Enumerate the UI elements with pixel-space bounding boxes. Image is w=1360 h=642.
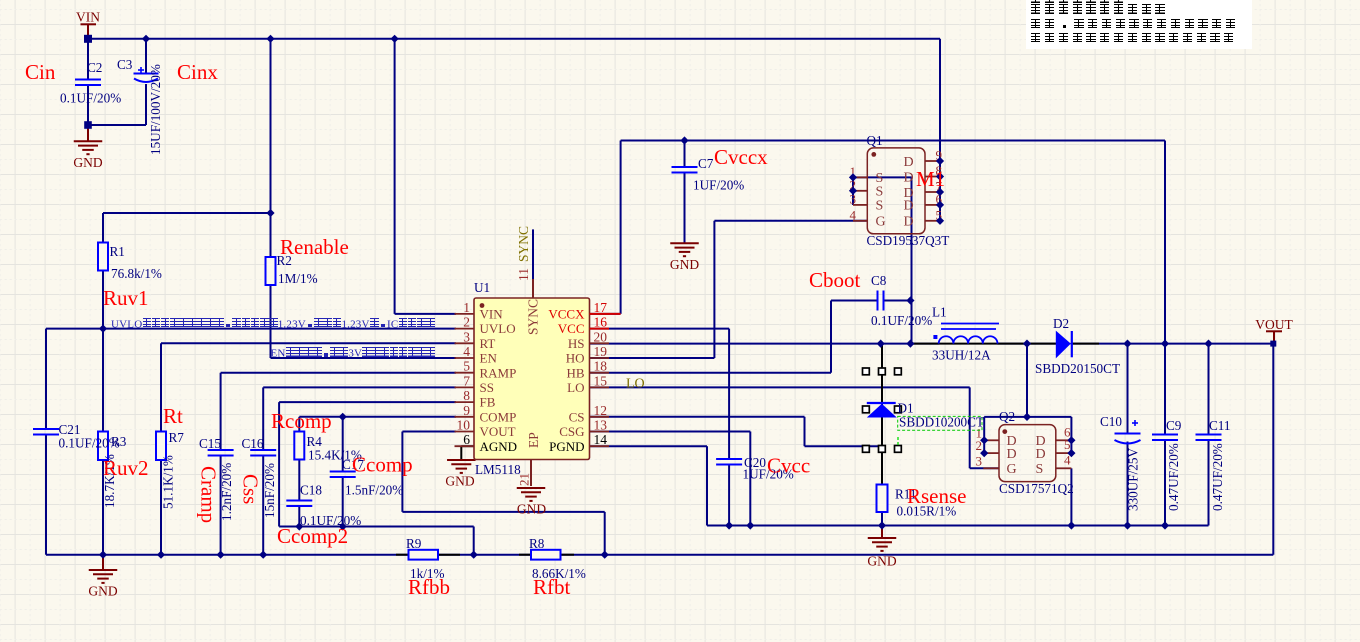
- svg-text:Cvcc: Cvcc: [767, 454, 810, 478]
- svg-text:L1: L1: [932, 305, 947, 320]
- svg-text:EN: EN: [480, 351, 498, 366]
- svg-text:51.1K/1%: 51.1K/1%: [161, 455, 176, 509]
- svg-text:7: 7: [463, 373, 470, 388]
- svg-text:VOUT: VOUT: [1255, 317, 1293, 332]
- svg-text:D: D: [904, 155, 914, 170]
- svg-text:R1: R1: [110, 244, 125, 259]
- svg-text:GND: GND: [867, 554, 896, 569]
- svg-text:C8: C8: [871, 273, 887, 288]
- svg-text:12: 12: [594, 403, 608, 418]
- svg-text:4: 4: [463, 344, 470, 359]
- svg-text:Rcomp: Rcomp: [271, 409, 332, 433]
- svg-text:Ruv1: Ruv1: [103, 286, 149, 310]
- svg-text:D: D: [904, 199, 914, 214]
- svg-text:C7: C7: [698, 156, 714, 171]
- svg-text:Cinx: Cinx: [177, 60, 218, 84]
- svg-text:G: G: [1007, 462, 1017, 477]
- svg-text:FB: FB: [480, 395, 496, 410]
- svg-text:Cboot: Cboot: [809, 268, 861, 292]
- svg-text:33UH/12A: 33UH/12A: [932, 348, 991, 363]
- svg-text:0.47UF/20%: 0.47UF/20%: [1210, 443, 1225, 511]
- svg-text:HB: HB: [566, 365, 584, 380]
- svg-text:15UF/100V/20%: 15UF/100V/20%: [148, 64, 163, 155]
- svg-text:M1: M1: [916, 167, 945, 191]
- svg-text:LO: LO: [626, 377, 645, 392]
- svg-text:R8: R8: [529, 536, 545, 551]
- svg-text:15nF/20%: 15nF/20%: [262, 463, 277, 518]
- svg-text:3: 3: [976, 453, 983, 468]
- svg-text:CSD17571Q2: CSD17571Q2: [999, 481, 1074, 496]
- svg-text:18: 18: [594, 359, 608, 374]
- svg-text:CSD19537Q3T: CSD19537Q3T: [867, 233, 950, 248]
- svg-text:8: 8: [463, 388, 470, 403]
- svg-text:S: S: [1036, 462, 1044, 477]
- svg-text:Css: Css: [239, 474, 263, 504]
- svg-text:C10: C10: [1100, 414, 1122, 429]
- svg-text:VIN: VIN: [480, 307, 504, 322]
- svg-text:EP: EP: [526, 432, 541, 448]
- svg-text:VCC: VCC: [558, 321, 585, 336]
- svg-text:Cvccx: Cvccx: [714, 145, 768, 169]
- svg-text:S: S: [876, 199, 884, 214]
- svg-text:U1: U1: [474, 280, 490, 295]
- svg-text:10: 10: [457, 418, 471, 433]
- svg-text:CSG: CSG: [559, 424, 584, 439]
- svg-text:20: 20: [594, 329, 608, 344]
- svg-text:RT: RT: [480, 336, 496, 351]
- svg-text:S: S: [876, 185, 884, 200]
- svg-text:SYNC: SYNC: [526, 299, 541, 335]
- svg-text:D: D: [904, 170, 914, 185]
- svg-text:VCCX: VCCX: [548, 307, 585, 322]
- svg-text:AGND: AGND: [480, 439, 518, 454]
- svg-text:D2: D2: [1053, 316, 1069, 331]
- svg-text:COMP: COMP: [480, 409, 517, 424]
- svg-text:D1: D1: [898, 401, 914, 416]
- svg-text:16: 16: [594, 315, 608, 330]
- svg-text:VOUT: VOUT: [480, 424, 516, 439]
- svg-text:C2: C2: [87, 60, 102, 75]
- svg-text:HO: HO: [566, 351, 585, 366]
- svg-text:4: 4: [850, 207, 857, 222]
- svg-text:Renable: Renable: [280, 235, 349, 259]
- svg-text:GND: GND: [445, 474, 474, 489]
- svg-text:SYNC: SYNC: [516, 226, 531, 262]
- svg-text:D: D: [904, 215, 914, 230]
- svg-text:R7: R7: [169, 430, 185, 445]
- svg-text:G: G: [876, 215, 886, 230]
- svg-text:C18: C18: [300, 483, 322, 498]
- svg-text:Rsense: Rsense: [907, 484, 967, 508]
- svg-text:C15: C15: [199, 436, 221, 451]
- svg-text:R3: R3: [111, 434, 127, 449]
- svg-text:15: 15: [594, 373, 608, 388]
- svg-text:GND: GND: [670, 257, 699, 272]
- svg-text:Rfbb: Rfbb: [408, 575, 450, 599]
- svg-text:R9: R9: [406, 536, 422, 551]
- svg-text:Cin: Cin: [25, 60, 56, 84]
- svg-text:19: 19: [594, 344, 608, 359]
- svg-text:Q2: Q2: [999, 409, 1015, 424]
- svg-text:CS: CS: [569, 409, 585, 424]
- svg-text:VIN: VIN: [76, 10, 100, 25]
- svg-text:Q1: Q1: [867, 133, 883, 148]
- svg-text:9: 9: [463, 403, 470, 418]
- svg-text:LM5118: LM5118: [475, 462, 521, 477]
- svg-text:SS: SS: [480, 380, 494, 395]
- svg-text:0.1UF/20%: 0.1UF/20%: [871, 313, 932, 328]
- svg-text:D: D: [1036, 447, 1046, 462]
- svg-text:2: 2: [463, 315, 470, 330]
- svg-text:C16: C16: [242, 436, 264, 451]
- svg-text:Ccomp: Ccomp: [352, 453, 413, 477]
- svg-text:GND: GND: [73, 155, 102, 170]
- svg-text:Rt: Rt: [163, 404, 183, 428]
- svg-text:LO: LO: [567, 380, 584, 395]
- svg-text:76.8k/1%: 76.8k/1%: [111, 266, 162, 281]
- svg-text:13: 13: [594, 418, 608, 433]
- svg-text:Ruv2: Ruv2: [103, 456, 149, 480]
- svg-text:0.47UF/20%: 0.47UF/20%: [1166, 443, 1181, 511]
- svg-text:14: 14: [594, 432, 608, 447]
- svg-text:GND: GND: [88, 584, 117, 599]
- svg-text:1M/1%: 1M/1%: [278, 271, 318, 286]
- svg-text:C3: C3: [117, 57, 133, 72]
- svg-text:GND: GND: [517, 502, 546, 517]
- svg-text:SBDD10200CT: SBDD10200CT: [899, 415, 984, 430]
- svg-text:PGND: PGND: [549, 439, 584, 454]
- svg-text:330UF/25V: 330UF/25V: [1126, 448, 1141, 511]
- svg-text:6: 6: [463, 432, 470, 447]
- svg-text:17: 17: [594, 300, 608, 315]
- svg-text:UVLO: UVLO: [480, 321, 516, 336]
- svg-text:Cramp: Cramp: [197, 466, 221, 523]
- svg-text:11: 11: [516, 268, 531, 281]
- svg-text:1UF/20%: 1UF/20%: [693, 178, 744, 193]
- svg-text:D: D: [1007, 447, 1017, 462]
- svg-text:0.1UF/20%: 0.1UF/20%: [60, 91, 121, 106]
- svg-text:HS: HS: [568, 336, 585, 351]
- svg-text:C9: C9: [1166, 418, 1182, 433]
- svg-text:SBDD20150CT: SBDD20150CT: [1035, 361, 1120, 376]
- svg-text:1: 1: [463, 300, 470, 315]
- svg-text:RAMP: RAMP: [480, 365, 517, 380]
- svg-text:C11: C11: [1209, 418, 1231, 433]
- svg-text:Rfbt: Rfbt: [533, 575, 571, 599]
- svg-text:1.5nF/20%: 1.5nF/20%: [345, 483, 403, 498]
- svg-text:3: 3: [463, 329, 470, 344]
- svg-text:Ccomp2: Ccomp2: [277, 524, 348, 548]
- svg-text:5: 5: [463, 359, 470, 374]
